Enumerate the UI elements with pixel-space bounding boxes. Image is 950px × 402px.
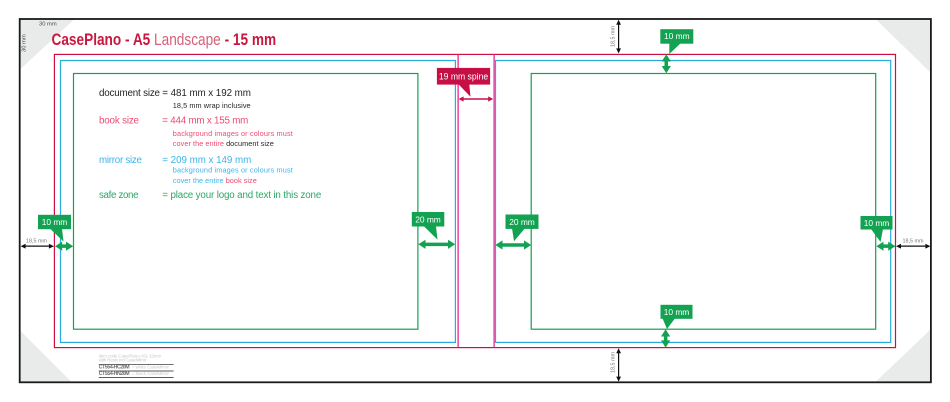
svg-text:= 481 mm x 192 mm: = 481 mm x 192 mm [162,88,251,99]
svg-text:10 mm: 10 mm [664,31,690,41]
svg-text:10 mm: 10 mm [664,307,690,317]
svg-text:18,5 mm: 18,5 mm [611,352,617,373]
svg-text:CT554-HC20M: CT554-HC20M [99,365,130,371]
svg-text:= white CaseMirror: = white CaseMirror [132,365,169,370]
svg-text:18,5 mm: 18,5 mm [903,239,924,245]
svg-text:CasePlano - A5 Landscape - 15: CasePlano - A5 Landscape - 15 mm [52,30,277,49]
svg-text:background images or colours m: background images or colours must [173,129,293,138]
svg-text:= place your logo and text in: = place your logo and text in this zone [162,190,322,201]
svg-text:18,5 mm: 18,5 mm [26,239,47,245]
svg-text:18,5 mm: 18,5 mm [611,26,617,47]
svg-text:20 mm: 20 mm [415,214,441,224]
svg-text:19 mm spine: 19 mm spine [439,72,488,83]
svg-text:30 mm: 30 mm [22,34,28,52]
svg-text:10 mm: 10 mm [42,217,68,227]
svg-text:CT554-HN20M: CT554-HN20M [99,371,130,377]
svg-text:= black CaseMirror: = black CaseMirror [132,371,169,376]
svg-text:20 mm: 20 mm [509,217,535,227]
svg-text:= 209 mm x 149 mm: = 209 mm x 149 mm [162,155,251,166]
svg-text:= 444 mm x 155 mm: = 444 mm x 155 mm [162,115,248,126]
svg-text:safe zone: safe zone [99,190,139,201]
svg-text:30 mm: 30 mm [39,21,57,27]
svg-text:cover the entire book size: cover the entire book size [173,176,257,185]
svg-text:10 mm: 10 mm [864,218,890,228]
svg-text:18,5 mm wrap inclusive: 18,5 mm wrap inclusive [173,101,251,110]
svg-text:book size: book size [99,115,140,126]
svg-text:document size: document size [99,88,161,99]
svg-text:with Resin incl CaseMirror: with Resin incl CaseMirror [99,358,147,363]
svg-text:mirror size: mirror size [99,155,143,166]
svg-text:background images or colours m: background images or colours must [173,165,293,174]
svg-text:cover the entire document size: cover the entire document size [173,139,274,148]
